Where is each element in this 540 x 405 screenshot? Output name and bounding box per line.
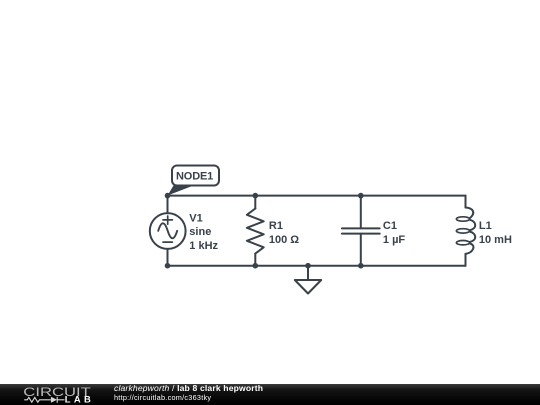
CircuitLab logo [0, 384, 110, 405]
label R1 value [269, 220, 299, 246]
node junction R1 top [253, 193, 259, 199]
wire top rail [168, 195, 466, 197]
node junction ground [305, 263, 311, 269]
node label NODE1 callout [168, 166, 220, 196]
label V1 value [189, 213, 218, 252]
node junction C1 bottom [358, 263, 364, 269]
wire R1 top lead [254, 196, 256, 209]
wire V1 bottom lead [167, 249, 169, 266]
voltage source V1 [150, 213, 186, 249]
svg-text:1 µF: 1 µF [383, 234, 406, 246]
svg-text:L1: L1 [479, 220, 492, 232]
node junction V1 top [165, 193, 171, 199]
inductor L1 [456, 208, 475, 254]
svg-text:V1: V1 [189, 213, 202, 225]
node junction R1 bottom [253, 263, 259, 269]
wire V1 top lead [167, 196, 169, 214]
svg-text:R1: R1 [269, 220, 283, 232]
wire C1 bottom lead [360, 234, 362, 266]
svg-text:1 kHz: 1 kHz [189, 240, 218, 252]
wire C1 top lead [360, 196, 362, 229]
label L1 value [479, 220, 512, 246]
ground [295, 266, 321, 294]
wire L1 top lead [465, 196, 467, 208]
svg-text:C1: C1 [383, 220, 397, 232]
resistor R1 [247, 209, 264, 254]
svg-text:sine: sine [189, 226, 211, 238]
wire bottom rail [168, 265, 466, 267]
svg-text:NODE1: NODE1 [176, 170, 213, 182]
svg-text:LAB: LAB [65, 394, 91, 405]
svg-text:10 mH: 10 mH [479, 234, 512, 246]
label C1 value [383, 220, 406, 246]
svg-text:100 Ω: 100 Ω [269, 234, 299, 246]
wire R1 bottom lead [254, 254, 256, 266]
node junction V1 bottom [165, 263, 171, 269]
node junction C1 top [358, 193, 364, 199]
capacitor C1 [342, 228, 380, 233]
wire L1 bottom lead [465, 254, 467, 266]
